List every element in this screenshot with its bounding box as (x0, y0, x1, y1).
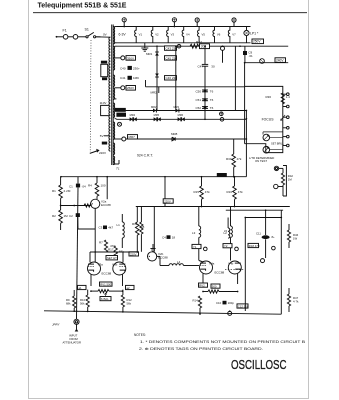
svg-text:NOTES:: NOTES: (134, 333, 146, 337)
ground (heater return) (144, 43, 146, 48)
label box 220V on separator (163, 199, 173, 203)
svg-text:18: 18 (172, 236, 176, 240)
svg-text:30: 30 (211, 64, 215, 68)
svg-text:FOCUS: FOCUS (262, 118, 275, 122)
terminal stubs on CRT box (283, 93, 287, 95)
label box 300 (200, 44, 210, 49)
svg-text:T6: T6 (210, 106, 214, 110)
resistor R2 (60, 206, 62, 211)
svg-text:250V: 250V (253, 40, 261, 44)
svg-text:MR1: MR1 (146, 52, 153, 56)
resistor R39 (233, 139, 235, 154)
svg-text:S BAL: S BAL (101, 297, 109, 301)
transformer bottom stub (115, 163, 119, 165)
HT rail y=46 (116, 45, 288, 47)
svg-text:C41: C41 (120, 76, 126, 80)
svg-text:C52: C52 (196, 106, 202, 110)
terminal tag (top rail left) (122, 18, 126, 22)
svg-text:ATTENUATOR: ATTENUATOR (63, 341, 82, 345)
svg-text:Y2: Y2 (224, 244, 228, 248)
resistor R42 (282, 168, 284, 173)
svg-text:C12 500: C12 500 (238, 304, 249, 308)
svg-text:1. * DENOTES COMPONENTS NO: 1. * DENOTES COMPONENTS NOT MOUNTED ON P… (140, 340, 306, 344)
heater rail bottom (116, 42, 250, 44)
feed wire (222, 50, 224, 62)
double triode V4a (200, 261, 213, 274)
mains selector wiper (90, 151, 98, 154)
svg-text:ECC88: ECC88 (215, 271, 225, 275)
resistor R9 (73, 296, 76, 308)
svg-text:SET BRILL: SET BRILL (271, 142, 284, 146)
svg-text:MR4: MR4 (130, 113, 136, 117)
resistor R47 (287, 294, 290, 306)
wire to transformer primary (96, 36, 101, 38)
pot SET BRILL 1 (263, 134, 270, 141)
svg-text:56k: 56k (80, 301, 85, 305)
svg-text:C40: C40 (120, 66, 126, 70)
svg-text:C50: C50 (196, 89, 202, 93)
heater V6 (213, 27, 215, 43)
resistor R46 (287, 230, 290, 242)
svg-text:4·7k: 4·7k (293, 299, 299, 303)
double triode V3a (88, 262, 101, 275)
svg-text:C4: C4 (162, 236, 166, 240)
svg-text:5V: 5V (100, 134, 104, 138)
svg-text:L3: L3 (192, 231, 196, 235)
terminal tag (top rail mid) (172, 18, 176, 22)
triode V2b (148, 252, 157, 261)
cathode resistor R12 (121, 295, 124, 307)
svg-text:JPRY: JPRY (52, 323, 61, 327)
svg-text:V6: V6 (217, 33, 221, 37)
svg-text:SET HT: SET HT (107, 256, 117, 260)
svg-text:MR8: MR8 (171, 132, 178, 136)
transformer T1 core (111, 25, 113, 166)
tag (177, 44, 181, 48)
dashed screen wire (225, 268, 245, 270)
svg-text:V2: V2 (155, 33, 159, 37)
tap label (solid) (102, 142, 107, 145)
lamp symbol (260, 59, 265, 64)
svg-text:T1: T1 (116, 167, 120, 171)
heater V1 (135, 27, 137, 43)
svg-text:47k: 47k (237, 157, 242, 161)
wire (90, 251, 137, 253)
EHT verticals (244, 63, 246, 144)
separator rail (61, 176, 246, 178)
tag (228, 311, 232, 315)
junction dots (123, 26, 125, 28)
triode V2a (91, 199, 100, 208)
voltage selector link 2 (101, 105, 109, 115)
svg-text:C10: C10 (216, 301, 222, 305)
svg-text:R14: R14 (193, 299, 199, 303)
svg-text:V3b: V3b (112, 263, 118, 267)
svg-text:V3a: V3a (98, 263, 104, 267)
right mid: vertical feed (244, 218, 246, 312)
rectifier MR1 (155, 52, 159, 55)
electrolytic C11 (262, 235, 270, 239)
rectifier MR2 (155, 74, 159, 77)
label box C45 (165, 56, 177, 60)
ground (V2b grid) (152, 244, 154, 249)
heater V2 (151, 27, 153, 43)
resistor R36 (281, 93, 284, 104)
EHT rectifier rail (116, 118, 246, 120)
label box Y1 plate (192, 244, 201, 248)
label box left (78, 285, 87, 289)
tag (272, 246, 276, 250)
svg-text:RV1 500: RV1 500 (100, 283, 111, 287)
svg-text:2. ⊕ DENOTES TAGS ON PRINT: 2. ⊕ DENOTES TAGS ON PRINTED CIRCUIT BOA… (139, 347, 263, 351)
cathode wires pair2 (202, 274, 204, 284)
balance pot RV1 (100, 282, 113, 286)
CRT connector bracket (283, 166, 286, 197)
terminal tag (top rail right) (232, 18, 236, 22)
svg-text:R11: R11 (132, 222, 138, 226)
label box C43 (165, 46, 177, 50)
svg-text:R2: R2 (52, 214, 56, 218)
wire (68, 36, 73, 38)
svg-text:924 C.R.T.: 924 C.R.T. (137, 154, 153, 158)
anode wires pair1 (89, 252, 91, 262)
EHT output wire (126, 138, 246, 140)
svg-text:a2: a2 (127, 286, 131, 290)
capacitor C47 (204, 46, 206, 64)
svg-text:1MK: 1MK (133, 76, 139, 80)
cathode resistor R10 (86, 295, 89, 307)
CRT network box (245, 86, 283, 152)
bottom rail (44, 311, 281, 314)
heater V4 (182, 27, 184, 43)
amp rail 2 (226, 209, 283, 211)
label box SET HT (106, 256, 118, 260)
resistor R1 (60, 177, 62, 185)
secondary tap terminal y=87.8 (121, 86, 125, 90)
double triode V3b (113, 262, 126, 275)
svg-text:2·2M: 2·2M (64, 189, 71, 193)
svg-text:0V: 0V (103, 33, 107, 37)
svg-text:RV2: RV2 (199, 284, 205, 288)
rectifier MR8 (172, 137, 175, 141)
svg-text:LP1 *: LP1 * (250, 32, 259, 36)
graticule lamp rail (245, 62, 288, 64)
label box (129, 252, 139, 256)
svg-text:R18 470: R18 470 (249, 244, 260, 248)
EHT feed wire (204, 66, 206, 119)
svg-text:Y1: Y1 (193, 245, 197, 249)
svg-text:a1: a1 (79, 286, 83, 290)
svg-text:C51: C51 (196, 98, 202, 102)
svg-text:1M: 1M (64, 214, 69, 218)
transformer T1 secondary windings (113, 27, 114, 44)
amp rail 3 (245, 217, 281, 219)
svg-text:Telequipment 551B & 551E: Telequipment 551B & 551E (38, 3, 127, 10)
heater V5 (198, 27, 200, 43)
balance pot RV2 (199, 283, 208, 287)
pot SET BRILL 2 (263, 146, 270, 153)
svg-text:4k7: 4k7 (108, 226, 113, 230)
transformer T1 primary winding (109, 37, 111, 151)
svg-text:R16: R16 (227, 190, 233, 194)
svg-text:V3: V3 (171, 33, 175, 37)
HT link wire (146, 86, 245, 88)
EHT winding tap (118, 122, 122, 126)
svg-text:350V: 350V (127, 56, 134, 60)
svg-text:ECC88: ECC88 (102, 272, 112, 276)
svg-text:110V: 110V (100, 101, 107, 105)
grid stopper squiggle (84, 204, 92, 207)
vertical feed wire (175, 46, 177, 110)
right rail vertical (280, 210, 282, 314)
amp top rail (136, 206, 290, 208)
svg-text:S1: S1 (85, 28, 89, 32)
label box Y2 plate (223, 244, 232, 248)
svg-text:MR2: MR2 (151, 91, 158, 95)
svg-text:68k: 68k (66, 301, 71, 305)
heater V3 (167, 27, 169, 43)
pilot lamp LP1 (244, 30, 249, 35)
svg-text:C3: C3 (99, 226, 103, 230)
svg-text:·01: ·01 (248, 54, 253, 58)
EHT winding tap label (116, 113, 126, 117)
C9 capacitor (solid square) (243, 51, 247, 55)
svg-text:MR6: MR6 (178, 113, 184, 117)
tag (261, 259, 265, 263)
svg-text:47k: 47k (238, 190, 243, 194)
svg-text:6·3V: 6·3V (119, 33, 127, 37)
svg-text:MR5: MR5 (154, 113, 160, 117)
svg-text:·04: ·04 (81, 185, 86, 189)
svg-text:56k: 56k (119, 250, 124, 254)
svg-text:500: 500 (212, 285, 217, 289)
svg-text:R17: R17 (108, 248, 114, 252)
svg-text:250V: 250V (127, 86, 134, 90)
svg-text:C11: C11 (256, 232, 261, 236)
wire in CRT box (263, 131, 283, 133)
label box C46 (165, 76, 177, 80)
svg-text:C2: C2 (69, 214, 73, 218)
svg-text:MR3: MR3 (174, 105, 180, 109)
svg-text:MR7: MR7 (129, 135, 136, 139)
label box right (126, 285, 135, 289)
secondary tap terminal y=57.9 (121, 56, 125, 60)
label box C12 (237, 304, 248, 308)
terminal tag (top rail right-mid) (195, 18, 199, 22)
svg-text:R4: R4 (88, 184, 92, 188)
svg-text:T6: T6 (210, 98, 214, 102)
svg-text:OSCILLOSC: OSCILLOSC (231, 357, 287, 372)
secondary tap wires (115, 26, 117, 28)
bus tap label (solid) (115, 108, 126, 112)
svg-text:56k: 56k (127, 301, 132, 305)
svg-text:V5: V5 (202, 33, 206, 37)
voltage selector link 1 (101, 64, 108, 76)
label box R16 470 (248, 243, 259, 247)
svg-text:R39: R39 (226, 157, 232, 161)
svg-text:1W: 1W (293, 236, 298, 240)
vertical wires mid (164, 177, 166, 207)
svg-text:C47: C47 (198, 64, 204, 68)
svg-text:T6: T6 (210, 89, 214, 93)
cathode wire V2a (94, 208, 96, 262)
switch mechanical link (dotted) (89, 40, 92, 152)
fuse F2 (73, 35, 78, 40)
svg-text:1M: 1M (288, 178, 293, 182)
heater V7 (228, 27, 230, 43)
svg-text:R36: R36 (266, 95, 272, 99)
EHT tap terminal (122, 137, 126, 141)
svg-text:V4a: V4a (209, 262, 215, 266)
svg-text:F1: F1 (63, 29, 67, 33)
cathode resistor R14 (198, 296, 201, 308)
CRT base tag (274, 166, 278, 170)
svg-text:V1: V1 (139, 33, 143, 37)
svg-text:R7: R7 (99, 241, 103, 245)
svg-text:C1: C1 (69, 185, 73, 189)
svg-text:230+: 230+ (133, 66, 140, 70)
svg-text:240V: 240V (276, 59, 284, 63)
svg-text:MR2: MR2 (151, 105, 157, 109)
svg-text:R15: R15 (194, 190, 200, 194)
wire (244, 46, 246, 63)
svg-text:V4: V4 (186, 33, 190, 37)
primary top tap wire (96, 36, 111, 38)
label box 250V (solid) (252, 39, 264, 44)
mains input wire (57, 36, 63, 38)
resistor R8 (136, 222, 140, 235)
double triode V4b (228, 261, 241, 274)
tag on HT rail (221, 46, 225, 50)
svg-text:8+: 8+ (272, 235, 276, 239)
input tag (74, 319, 79, 324)
label box on separator (217, 173, 227, 177)
svg-text:200p: 200p (228, 301, 235, 305)
svg-text:V7: V7 (232, 33, 236, 37)
svg-text:220V: 220V (99, 151, 106, 155)
tag (220, 118, 224, 122)
svg-text:220V: 220V (164, 199, 171, 203)
svg-text:100: 100 (101, 184, 106, 188)
wire (78, 36, 86, 38)
svg-text:ON TEST: ON TEST (255, 159, 267, 163)
tag (274, 184, 278, 188)
svg-text:R1: R1 (52, 189, 56, 193)
cathode wires pair1 (90, 275, 92, 287)
svg-text:V4b: V4b (228, 262, 234, 266)
resistor R44 (squiggle on HT rail) (190, 44, 199, 48)
heater rail top (116, 26, 250, 28)
svg-text:47k: 47k (205, 190, 210, 194)
label box (275, 58, 286, 63)
title underline (33, 12, 307, 14)
svg-text:220V: 220V (130, 252, 137, 256)
svg-text:ECC88: ECC88 (101, 203, 111, 207)
svg-text:L5: L5 (224, 229, 228, 233)
svg-text:L1: L1 (117, 223, 121, 227)
LT bus wire (115, 110, 247, 112)
anode feed vertical (106, 177, 108, 200)
